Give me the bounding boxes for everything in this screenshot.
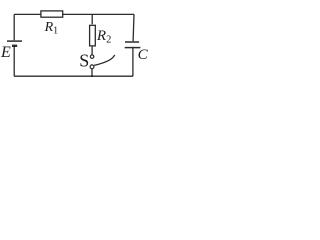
svg-text:S: S bbox=[79, 51, 89, 71]
svg-text:R2: R2 bbox=[96, 28, 111, 46]
svg-text:R1: R1 bbox=[44, 20, 59, 37]
svg-text:E: E bbox=[0, 44, 11, 61]
svg-text:C: C bbox=[138, 47, 149, 63]
